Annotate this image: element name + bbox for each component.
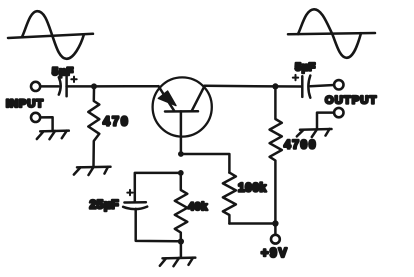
wire input terminal to C1	[40, 85, 58, 88]
output terminal	[334, 80, 343, 89]
label OUTPUT	[325, 95, 377, 107]
value label 5uF (C1)	[52, 66, 74, 78]
svg-text:5µF: 5µF	[52, 66, 74, 78]
svg-text:5µF: 5µF	[295, 62, 316, 74]
resistor R2 4700	[270, 90, 282, 221]
value label 4700	[284, 138, 317, 152]
node E (bypass node)	[178, 170, 184, 176]
svg-text:100k: 100k	[238, 181, 267, 195]
svg-text:+9V: +9V	[261, 246, 288, 260]
ground (input)	[37, 131, 69, 140]
ground (emitter network)	[160, 258, 196, 267]
output waveform	[288, 9, 375, 58]
capacitor C1 5uF	[59, 75, 67, 96]
svg-text:40k: 40k	[188, 201, 208, 213]
node B (collector node)	[272, 83, 278, 89]
svg-text:470: 470	[103, 115, 130, 129]
wire C1 to node A	[67, 85, 94, 88]
wire node A to transistor emitter	[94, 85, 159, 88]
wire capacitor 25uF to node F	[136, 209, 178, 241]
wire node E to capacitor 25uF	[135, 173, 181, 201]
node A (input node)	[91, 83, 97, 89]
value label 25uF	[90, 198, 120, 212]
input ground terminal	[31, 113, 40, 122]
label INPUT	[6, 98, 44, 110]
input waveform	[8, 11, 93, 59]
capacitor C2 5uF	[302, 76, 310, 98]
wire resistor 100k to node C	[229, 222, 272, 225]
resistor R4 40k	[175, 176, 188, 239]
svg-text:25µF: 25µF	[90, 198, 120, 212]
resistor R3 100k	[223, 173, 236, 224]
wire node C to +9V terminal	[274, 227, 277, 235]
node D (base node)	[178, 151, 184, 157]
value label 470	[103, 115, 130, 129]
svg-text:OUTPUT: OUTPUT	[325, 95, 377, 107]
polarity + (C1)	[71, 77, 76, 82]
ground (R1 470)	[74, 167, 111, 175]
polarity + (C2)	[293, 75, 298, 80]
wire input ground terminal to ground	[40, 117, 52, 131]
+9V terminal	[271, 235, 280, 244]
input terminal	[31, 82, 40, 91]
wire collector to node B	[205, 85, 276, 88]
svg-text:4700: 4700	[284, 138, 317, 152]
node F (ground node)	[178, 238, 184, 244]
polarity + (C3)	[127, 190, 132, 195]
value label 5uF (C2)	[295, 62, 316, 74]
wire node D to resistor 100k	[181, 154, 230, 173]
wire output ground terminal to ground	[317, 113, 334, 129]
node C (+9V rail node)	[272, 220, 278, 226]
resistor R1 470	[88, 89, 99, 167]
transistor Q1	[153, 77, 212, 136]
wire node F to ground	[180, 245, 183, 258]
svg-text:INPUT: INPUT	[6, 98, 44, 110]
value label 40k	[188, 201, 208, 213]
capacitor C3 25uF	[123, 202, 147, 209]
value label 100k	[238, 181, 267, 195]
wire node B to C2	[275, 85, 302, 88]
output ground terminal	[334, 108, 343, 117]
label +9V	[261, 246, 288, 260]
ground (output)	[297, 129, 332, 137]
wire transistor base to node D	[180, 111, 183, 154]
wire C2 to output terminal	[310, 85, 334, 86]
